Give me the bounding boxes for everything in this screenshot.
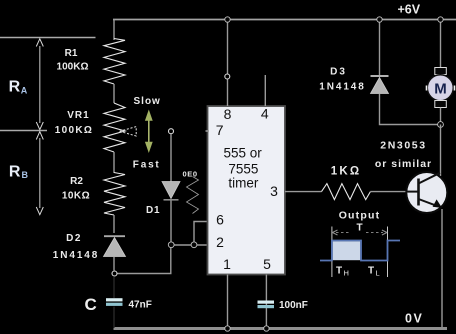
green adjust arrow: [148, 119, 150, 143]
svg-text:1N4148: 1N4148: [319, 82, 365, 93]
svg-text:1: 1: [223, 256, 231, 272]
wire: pin 4 up: [264, 75, 266, 106]
wire: R1 to VR1: [113, 84, 115, 103]
svg-text:R2: R2: [70, 176, 83, 187]
resistor 1K: [322, 184, 371, 200]
svg-text:T: T: [356, 223, 362, 234]
svg-text:8: 8: [224, 106, 232, 122]
svg-text:7: 7: [216, 122, 224, 138]
potentiometer VR1: [104, 103, 125, 152]
svg-text:timer: timer: [228, 176, 259, 191]
arrow RB measurement: [39, 138, 41, 208]
wire: 1K to transistor base: [370, 191, 406, 193]
svg-text:Fast: Fast: [133, 159, 161, 170]
svg-text:T: T: [336, 266, 342, 277]
svg-text:B: B: [22, 170, 29, 180]
junction dot rail pin1: [225, 326, 230, 331]
svg-text:R1: R1: [65, 48, 78, 59]
junction dot rail pin8: [225, 17, 230, 22]
waveform period arrows and T: [336, 232, 351, 234]
motor M: [435, 68, 447, 75]
wire: D1 to pin2 junction: [170, 201, 172, 246]
svg-text:A: A: [21, 86, 28, 96]
svg-text:Output: Output: [339, 210, 381, 222]
svg-text:100nF: 100nF: [279, 300, 308, 311]
svg-text:10KΩ: 10KΩ: [62, 191, 90, 202]
wire: VR1 to R2: [113, 152, 115, 173]
resistor R2: [104, 173, 125, 216]
node terminal circle pin8 wire: [225, 74, 230, 79]
pin 7 stub: [206, 130, 210, 132]
wire: D2 to node circle: [113, 257, 115, 271]
svg-text:R: R: [9, 79, 21, 96]
resistor R1: [104, 39, 125, 85]
diode D1: [162, 182, 180, 199]
svg-text:4: 4: [261, 106, 269, 122]
svg-text:3: 3: [270, 183, 278, 199]
wire: left column from +6V rail to R1 top: [113, 20, 115, 41]
svg-text:or similar: or similar: [375, 158, 432, 170]
node terminal circle left column: [112, 271, 117, 276]
wire: R2 to D2: [113, 215, 115, 233]
wire: capacitor C to 0V rail: [113, 307, 115, 328]
diode D2 1N4148: [104, 235, 125, 237]
wire: D3 down and across to collector node: [380, 94, 441, 125]
wire: pin 6 horizontal and corner: [194, 222, 208, 246]
svg-text:7555: 7555: [228, 162, 258, 177]
svg-text:100KΩ: 100KΩ: [57, 62, 89, 73]
svg-text:H: H: [344, 269, 349, 278]
wire: 0V bottom rail: [114, 327, 448, 330]
svg-text:5: 5: [263, 256, 271, 272]
svg-text:VR1: VR1: [67, 110, 89, 121]
svg-text:T: T: [368, 266, 374, 277]
junction dot rail D3: [377, 17, 382, 22]
junction dot rail pin5: [264, 326, 269, 331]
waveform fill high pulse: [333, 241, 361, 260]
svg-text:R: R: [9, 164, 21, 181]
svg-text:D2: D2: [66, 233, 82, 244]
junction dot collector node: [438, 122, 444, 128]
wire: motor to collector node: [440, 108, 442, 125]
svg-text:1N4148: 1N4148: [53, 250, 99, 261]
junction dot rail motor: [438, 17, 443, 22]
svg-text:2N3053: 2N3053: [380, 140, 426, 152]
svg-text:L: L: [376, 269, 380, 278]
wire: rail to D3: [379, 20, 381, 76]
wire: pin 3 output: [285, 191, 322, 193]
svg-text:+6V: +6V: [398, 3, 421, 17]
svg-text:1KΩ: 1KΩ: [331, 166, 362, 178]
svg-text:C: C: [85, 295, 97, 314]
capacitor C 47nF: [106, 298, 123, 301]
wire: emitter to 0V rail: [441, 209, 443, 327]
bracket line top RA: [0, 37, 96, 39]
waveform period ticks: [332, 227, 388, 278]
arrow RA measurement: [39, 46, 41, 123]
svg-text:100KΩ: 100KΩ: [55, 125, 93, 136]
op-amp U1 555 timer box: [208, 106, 286, 275]
svg-text:D1: D1: [146, 205, 160, 216]
wire: rail to motor: [440, 20, 442, 68]
bracket line mid: [0, 130, 47, 132]
svg-text:47nF: 47nF: [129, 300, 152, 311]
svg-text:6: 6: [216, 212, 224, 228]
wire: +6V top rail: [113, 19, 456, 21]
node terminal circle D1 top: [169, 129, 174, 134]
wire: node to transistor collector: [440, 125, 442, 177]
wire: circle down to D1: [170, 134, 172, 182]
waveform square wave: [320, 241, 400, 261]
svg-text:M: M: [434, 81, 447, 98]
wire: dark lead node to capacitor C: [113, 277, 115, 298]
VR1 wiper arrow: [120, 127, 137, 136]
junction dot pins 2/6 right: [191, 242, 197, 248]
junction dot pins 2/6 left: [168, 242, 174, 248]
svg-text:2: 2: [216, 234, 224, 250]
wire: pin 1 to 0V rail: [227, 275, 229, 329]
wire: node circle to D1 column: [118, 245, 171, 274]
wire: pin 2 horizontal: [171, 244, 208, 246]
svg-text:0V: 0V: [405, 312, 423, 326]
wire: pin 5 down: [265, 275, 267, 329]
svg-text:555 or: 555 or: [223, 146, 262, 161]
svg-text:Slow: Slow: [134, 96, 161, 107]
capacitor 100nF on pin 5: [258, 301, 275, 304]
svg-text:D3: D3: [330, 67, 347, 78]
svg-text:0E0: 0E0: [183, 170, 198, 179]
wire: pin 8 to +6V rail: [227, 20, 229, 107]
